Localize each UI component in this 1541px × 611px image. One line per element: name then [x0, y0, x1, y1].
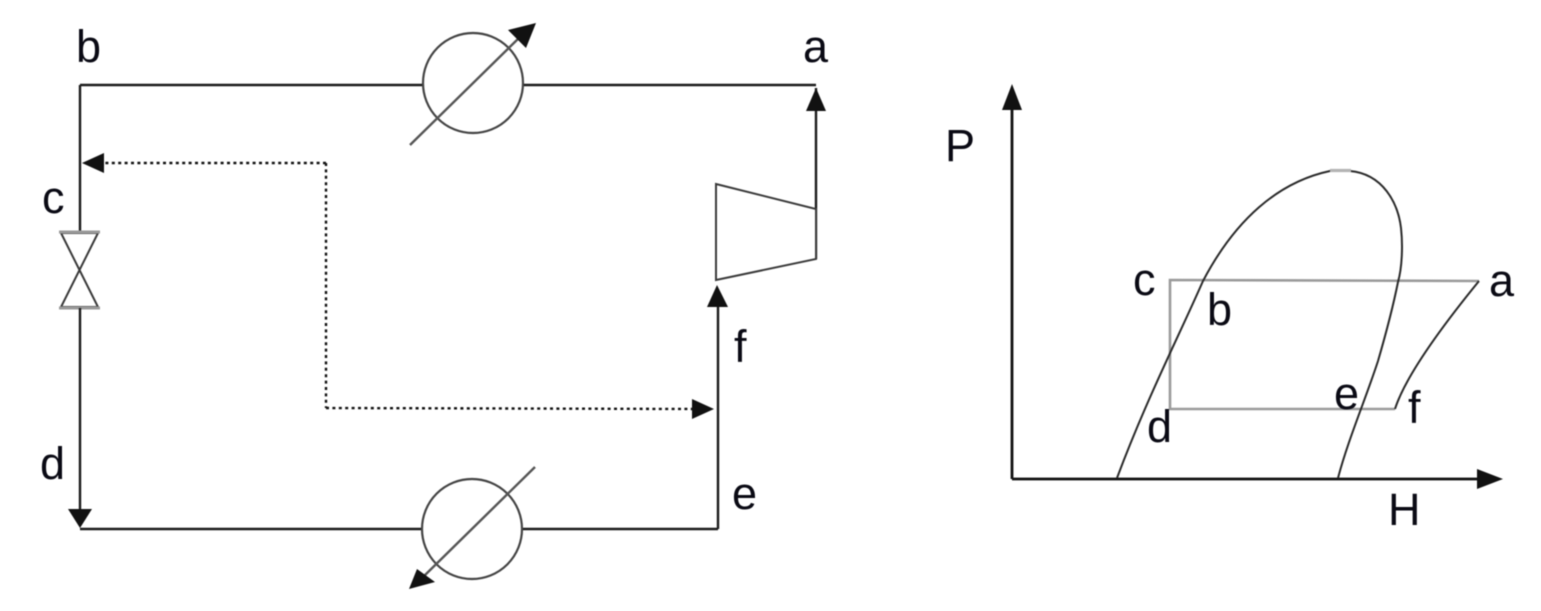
- svg-text:c: c: [42, 172, 65, 223]
- svg-text:e: e: [732, 468, 757, 519]
- wire a vertical: [815, 88, 817, 259]
- condenser diagonal arrow: [410, 36, 521, 145]
- condenser circle: [423, 33, 523, 133]
- svg-text:b: b: [76, 21, 101, 72]
- svg-text:f: f: [1408, 382, 1421, 433]
- expansion valve c-d: [59, 232, 100, 308]
- arrowhead down at d: [68, 509, 92, 528]
- wire left b-c: [79, 85, 81, 232]
- P-H diagram: P axis: [1011, 105, 1014, 479]
- dotted line lower horizontal with right arrow: [326, 408, 692, 409]
- P-H diagram: H axis: [1012, 478, 1482, 481]
- wire bottom d-e: [80, 528, 718, 530]
- wire right e-f: [717, 307, 719, 529]
- svg-text:d: d: [40, 438, 65, 489]
- evaporator circle: [422, 479, 522, 579]
- arrowhead up at a: [806, 88, 826, 111]
- wire top b-a: [80, 84, 816, 86]
- compressor (trapezoid): [716, 184, 816, 280]
- compression curve f-a: [1395, 281, 1479, 409]
- svg-text:c: c: [1133, 254, 1156, 305]
- arrowhead up at f into compressor: [707, 285, 728, 307]
- dotted line upper horizontal with left arrow: [104, 162, 326, 164]
- svg-text:d: d: [1147, 401, 1172, 452]
- svg-text:P: P: [945, 120, 975, 171]
- dotted line vertical: [325, 163, 327, 408]
- saturation dome peak cap: [1330, 169, 1351, 172]
- cycle rectangle c-d-e top and left and bottom (gray): [1170, 280, 1479, 409]
- svg-text:a: a: [1489, 255, 1515, 306]
- svg-text:f: f: [734, 321, 747, 372]
- svg-text:e: e: [1334, 368, 1359, 419]
- svg-text:H: H: [1388, 484, 1421, 535]
- wire valve-d: [79, 308, 81, 524]
- svg-text:a: a: [803, 21, 829, 72]
- svg-text:b: b: [1207, 284, 1232, 335]
- evaporator diagonal arrow: [422, 467, 535, 578]
- saturation dome: [1117, 171, 1402, 478]
